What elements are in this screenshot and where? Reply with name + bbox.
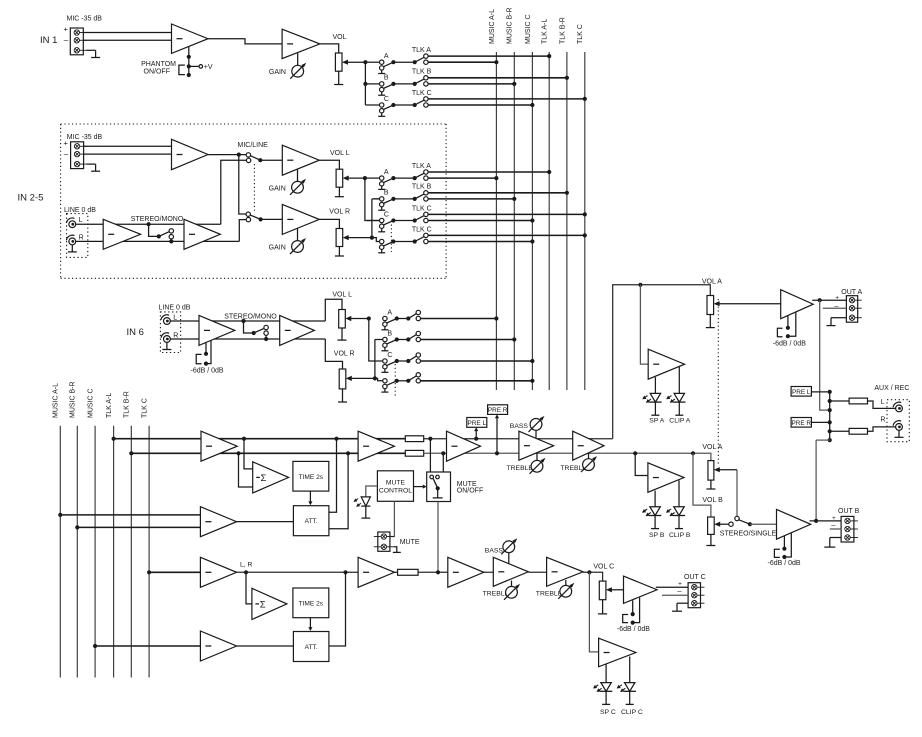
label IN6-A letter: [387, 309, 392, 316]
wire IN25-A feed: [365, 177, 380, 179]
bus label MUSIC C left: [88, 388, 95, 418]
wire IN25-C to music bus: [428, 220, 533, 222]
wire led B feed: [635, 453, 648, 475]
op-amp U8 IN6 line in: [199, 315, 235, 345]
wire IN25 B stub: [372, 198, 380, 200]
op-amp U16 treble A: [573, 431, 604, 460]
junction MIC/LINE R common: [259, 217, 263, 221]
label PHANTOM: [141, 61, 176, 68]
wire att6 C stem1: [632, 601, 634, 615]
label VOL L IN25: [330, 150, 350, 157]
svg-text:VOL A: VOL A: [702, 444, 722, 451]
potentiometer VOL L IN6: [339, 310, 346, 329]
svg-text:VOL: VOL: [333, 34, 347, 41]
junction IN1-C common: [391, 103, 395, 107]
wire led C stem1: [605, 664, 607, 683]
bus label TLK C left: [142, 398, 149, 418]
label IN25-C2 tlk: [412, 226, 432, 233]
wire mix C2 in: [95, 645, 200, 647]
box ATT C: [293, 632, 329, 662]
svg-text:MIC -35 dB: MIC -35 dB: [67, 16, 103, 23]
bus TLK A-L (left): [113, 426, 115, 678]
label IN1-C tlk: [412, 90, 432, 97]
junction STEREO/SINGLE common: [748, 522, 752, 526]
svg-text:SP A: SP A: [649, 417, 664, 424]
wiper VOL C: [606, 587, 624, 592]
junction att C join: [343, 570, 347, 574]
dashed box AUX REC: [887, 400, 909, 442]
junction mix2 Rbus: [75, 525, 79, 529]
svg-text:Σ: Σ: [261, 473, 267, 484]
op-amp U9 IN6 line buf: [280, 315, 315, 345]
ground VOL L IN6 gnd: [338, 328, 347, 340]
wire IN25 L gain stem: [297, 169, 299, 181]
terminal block OUT C: [688, 583, 704, 608]
wire led A feed: [640, 285, 648, 364]
ground mute term gnd: [393, 551, 401, 553]
junction IN25 volL node: [363, 176, 367, 180]
svg-text:C: C: [384, 211, 389, 218]
resistor R4 aux R: [849, 428, 867, 434]
potentiometer VOL B: [708, 517, 715, 534]
junction IN1-B node: [413, 82, 417, 86]
box MUTE CONTROL: [377, 471, 413, 502]
label IN1-B letter: [384, 75, 389, 82]
junction IN1 row B tap: [363, 82, 367, 86]
label IN1-A tlk: [412, 47, 431, 54]
svg-text:TLK B: TLK B: [412, 184, 432, 191]
bus label TLK C top: [577, 24, 584, 44]
junction IN6-A common: [395, 316, 399, 320]
wire sum feed C: [246, 572, 252, 604]
switch lever IN6-A lever2: [408, 313, 417, 318]
switch lever mute lever: [433, 479, 437, 489]
wire aux mix vert: [829, 392, 831, 440]
junction aux node 401: [828, 399, 832, 403]
wire IN25-A to tlk bus: [428, 171, 549, 173]
wire treble A2 stem: [588, 453, 590, 459]
bus TLK B-R (top): [566, 52, 568, 390]
potentiometer VOL A mid: [708, 461, 714, 481]
potentiometer knob TREBLE A: [530, 458, 546, 474]
wire att6 B stem1: [783, 536, 785, 549]
wire sum feed L: [244, 439, 253, 469]
switch contacts IN25-A tlk: [424, 170, 428, 181]
label -6dB/0dB C: [617, 626, 650, 633]
junction att6 B d1: [782, 547, 786, 551]
wire IN6-C to bus: [420, 360, 532, 362]
wire IN25 sm drop: [149, 224, 159, 236]
label plus IN1: [64, 25, 69, 34]
wire IN25-C2 to tlk bus: [428, 234, 585, 236]
label aux R: [880, 416, 885, 423]
svg-text:MUSIC A-L: MUSIC A-L: [53, 383, 60, 418]
switch contacts IN6 stereo/mono: [264, 325, 268, 335]
label IN1-A letter: [384, 53, 389, 60]
bus MUSIC A-L (top): [495, 52, 497, 390]
wire IN25 mic shield: [87, 163, 96, 165]
switch lever IN25-A lever: [383, 178, 393, 183]
junction IN25-A bus dot top: [547, 170, 551, 174]
svg-text:MUSIC B-R: MUSIC B-R: [70, 381, 77, 418]
label CLIP A: [669, 417, 691, 424]
svg-text:PRE R: PRE R: [791, 420, 811, 427]
wire IN6 sm stub: [265, 335, 267, 339]
svg-text:+: +: [64, 25, 69, 34]
junction mute pivot: [436, 486, 440, 490]
wire IN1 gain stem: [297, 53, 299, 65]
svg-text:STEREO/MONO: STEREO/MONO: [131, 216, 184, 223]
wire L sel to gain amp: [260, 159, 282, 161]
label OUT A: [841, 289, 862, 296]
LED CLIP B: [666, 507, 685, 529]
wire IN1-B link: [393, 83, 414, 85]
op-amp U24 buffer C: [358, 557, 394, 587]
label out A plus: [835, 295, 839, 302]
label VOL A mid: [702, 444, 722, 451]
op-amp U20 power B: [777, 509, 811, 539]
wire IN6 B stub: [375, 339, 383, 341]
junction att A join L: [334, 437, 338, 441]
label out C plus: [678, 580, 682, 587]
switch contacts IN25-A mute switch: [378, 176, 385, 189]
wire att C out: [329, 572, 346, 646]
op-amp U2 IN1 gain amp: [282, 29, 320, 58]
junction att A join R: [346, 451, 350, 455]
wire IN25-A link: [393, 177, 414, 179]
junction IN1-A common: [391, 60, 395, 64]
wire IN6-C2 link: [397, 380, 409, 382]
wire out A gnd stub: [831, 317, 846, 319]
label minus IN1: [64, 36, 69, 45]
summing amp U22 sum C: [252, 588, 287, 619]
op-amp U17 led drv A: [648, 349, 684, 379]
junction IN1 ph d3: [187, 73, 191, 77]
svg-text:LINE 0 dB: LINE 0 dB: [159, 304, 191, 311]
label TREBLE A2: [560, 465, 587, 472]
switch contacts IN6-B mute switch: [381, 337, 388, 351]
bus label MUSIC A-L left: [53, 383, 60, 418]
potentiometer knob BASS C: [501, 538, 517, 554]
switch lever IN1-A tlk lever: [415, 57, 425, 62]
svg-text:B: B: [387, 330, 392, 337]
switch lever IN1-B lever: [383, 84, 393, 89]
arrow time to att A: [308, 491, 312, 505]
junction IN6 att d1: [204, 352, 208, 356]
op-amp U21 mix C talk: [200, 557, 236, 587]
LED SP B: [642, 507, 661, 529]
svg-text:PRE L: PRE L: [468, 420, 487, 427]
wire IN25 mic out: [208, 154, 246, 156]
switch lever IN1-B tlk lever: [415, 79, 425, 84]
ground VOL R gnd: [335, 247, 344, 257]
ground IN6 line gnd: [162, 342, 171, 349]
junction IN1-A bus dot bottom: [494, 60, 498, 64]
ground VOL A gnd: [706, 315, 715, 328]
svg-text:-6dB / 0dB: -6dB / 0dB: [773, 341, 806, 348]
wire vol B feed: [693, 453, 711, 517]
wire IN1 interstage: [208, 39, 282, 44]
switch bracket att6 A: [777, 328, 782, 337]
wire IN6 L vert: [369, 319, 383, 362]
junction aux node 440.1: [828, 438, 832, 442]
ground VOL A mid gnd: [706, 480, 715, 489]
arrow mute ctl arrow: [414, 485, 427, 489]
wire out B gnd stub: [830, 537, 841, 539]
label BASS C: [485, 548, 504, 555]
wire att A out L: [329, 439, 337, 513]
wire IN6 R vert: [374, 340, 376, 379]
junction aux node 410.1: [828, 408, 832, 412]
junction mute tap C: [436, 570, 440, 574]
box PRE L A: [467, 418, 487, 428]
ground VOL B gnd: [706, 534, 715, 545]
svg-text:SP C: SP C: [600, 709, 616, 716]
wiper VOL A mid: [714, 467, 737, 472]
svg-text:TLK B-R: TLK B-R: [559, 17, 566, 44]
svg-text:PRE R: PRE R: [488, 407, 508, 414]
ground IN25 line gnd: [68, 245, 77, 252]
potentiometer knob TREBLE C: [504, 584, 520, 600]
label LINE 0 dB (IN25): [64, 207, 96, 214]
wire IN25 mic to R switch: [239, 155, 246, 214]
dashed box LINE IN6: [160, 312, 180, 353]
wire att A out R: [329, 453, 348, 529]
svg-text:TLK C: TLK C: [412, 205, 432, 212]
label OUT C: [684, 574, 706, 581]
label MUTE ON/OFF 1: [457, 481, 477, 488]
junction IN6 volL node: [367, 316, 371, 320]
switch contacts IN6-B: [416, 331, 420, 341]
potentiometer VOL A: [707, 296, 714, 315]
junction out A node: [818, 298, 822, 302]
label IN25-A tlk: [412, 163, 431, 170]
wire att6 B stem2: [784, 533, 791, 557]
svg-text:GAIN: GAIN: [269, 245, 286, 252]
junction IN25-A node: [413, 176, 417, 180]
svg-text:MIC -35 dB: MIC -35 dB: [67, 134, 103, 141]
junction IN25-B node: [413, 197, 417, 201]
wire IN1 +V link: [189, 65, 199, 67]
bus label TLK B-R left: [124, 391, 131, 418]
switch lever IN25-C lever: [383, 221, 393, 226]
op-amp U27 treble C: [547, 557, 584, 586]
svg-text:OUT B: OUT B: [838, 508, 860, 515]
junction mute tap L: [428, 437, 432, 441]
bus label MUSIC B-R top: [507, 7, 514, 44]
wire out B line: [810, 520, 842, 522]
switch contacts IN6-A: [416, 310, 420, 320]
bus TLK A-L (top): [548, 52, 550, 390]
switch contacts MIC/LINE L: [246, 153, 251, 163]
junction MIC/LINE L common: [258, 158, 262, 162]
switch lever IN25-B tlk lever: [415, 194, 425, 199]
svg-text:ATT.: ATT.: [305, 644, 318, 651]
wiper VOL L IN6: [345, 316, 369, 321]
junction IN25 sm pivot: [157, 234, 161, 238]
wire IN25 line R: [75, 240, 239, 242]
junction IN1-C node: [413, 103, 417, 107]
label MIC -35 dB (IN1): [67, 16, 103, 23]
box TIME 2s A: [293, 461, 329, 491]
RCA jack IN25 R: [66, 235, 75, 245]
op-amp U12 mix A music: [200, 507, 236, 537]
junction mix2 Lbus: [58, 513, 62, 517]
wire bass A stem: [535, 430, 537, 438]
wire R sel to gain amp: [261, 218, 283, 220]
LED SP C: [593, 683, 612, 705]
label GAIN IN1: [269, 69, 286, 76]
svg-text:A: A: [387, 309, 392, 316]
junction IN1-B bus dot bottom: [512, 82, 516, 86]
wire IN6 L up: [325, 299, 342, 321]
wire aux R to jack: [868, 427, 896, 431]
bus MUSIC C (top): [531, 52, 533, 390]
ground out C gnd: [672, 603, 682, 611]
switch contacts IN1-C tlk: [424, 97, 428, 108]
junction IN25-A bus dot bottom: [494, 176, 498, 180]
label +V: [204, 64, 213, 71]
junction IN1-A bus dot top: [547, 54, 551, 58]
junction vol C node: [587, 570, 591, 574]
potentiometer VOL R IN6: [339, 369, 346, 389]
op-amp U3 IN2-5 mic preamp: [172, 139, 209, 169]
label L, R: [240, 562, 253, 569]
svg-text:CLIP B: CLIP B: [669, 532, 691, 539]
junction IN6-B node: [406, 337, 410, 341]
wire IN6 line R: [170, 338, 325, 340]
junction IN1 ph d1: [187, 55, 191, 59]
wire IN1-C to music bus: [428, 104, 533, 106]
box PRE R aux: [791, 418, 811, 428]
op-amp U4 IN2-5 L gain: [282, 145, 319, 175]
switch contacts IN25 stereo/mono: [169, 229, 173, 239]
label MIC/LINE: [238, 142, 269, 149]
RCA jack IN25 L: [66, 218, 75, 228]
op-amp U23 mix C music: [200, 631, 236, 661]
wire IN1 mic hot: [83, 32, 171, 34]
wire IN25 volR feed: [319, 219, 339, 228]
junction IN6-C2 common: [395, 379, 399, 383]
op-amp U5 IN2-5 R gain: [282, 204, 319, 234]
label STEREO/MONO IN6: [224, 313, 277, 320]
label SP A: [649, 417, 664, 424]
label aux L: [881, 399, 885, 406]
LED mute opto: [354, 497, 371, 518]
label IN1-C letter: [384, 96, 389, 103]
box PRE L aux: [791, 387, 811, 397]
label OUT B: [838, 508, 860, 515]
wiper VOL B: [714, 522, 729, 527]
junction aux node 431.3: [828, 429, 832, 433]
label IN 1: [40, 35, 57, 46]
label ON/OFF IN1: [144, 69, 170, 76]
wire bass C stem: [508, 553, 510, 564]
junction mix C2 bus: [93, 644, 97, 648]
svg-text:A: A: [384, 53, 389, 60]
terminal block MIC IN1: [70, 28, 86, 55]
LED SP A: [642, 393, 661, 415]
wire led A stem2: [678, 367, 680, 394]
switch lever STEREO/SINGLE lever: [738, 520, 748, 524]
junction IN25-C common: [391, 218, 395, 222]
potentiometer VOL L IN2-5: [336, 169, 343, 187]
wire IN1-C link: [393, 104, 414, 106]
junction IN1-A node: [413, 60, 417, 64]
gang line IN2-5 box top: [61, 123, 447, 125]
label R jack IN6: [173, 332, 178, 339]
switch lever IN6-C lever2: [408, 356, 417, 361]
svg-text:MUTE: MUTE: [400, 539, 420, 546]
wire treble A stem: [536, 453, 538, 461]
switch contacts IN6-C2: [416, 373, 420, 383]
junction out B node: [814, 519, 818, 523]
junction mute tap R: [441, 451, 445, 455]
potentiometer knob GAIN IN1: [290, 63, 306, 79]
wire led C feed: [589, 572, 598, 652]
wire out C neg stub: [662, 594, 688, 596]
wire IN1 row bus vert: [364, 62, 366, 105]
wire IN6 R down: [325, 339, 342, 369]
junction IN6-C2 bus dot: [530, 379, 534, 383]
wiper VOL A: [714, 301, 781, 306]
label IN25-B tlk: [412, 184, 432, 191]
switch lever IN1-A lever: [383, 62, 393, 67]
wire IN25 L up to switch: [221, 160, 247, 224]
wire IN6 att stem2: [206, 340, 211, 364]
wire aux L to jack: [868, 401, 896, 408]
wire out C gnd stub: [677, 602, 688, 604]
junction IN6 sm pivot: [252, 331, 256, 335]
ground VOL C gnd: [598, 600, 607, 614]
junction IN6-C common: [395, 359, 399, 363]
junction IN25-C node: [413, 218, 417, 222]
wire led B stem2: [678, 480, 680, 507]
wire IN25 sm stub: [170, 239, 172, 242]
junction pre L tap: [474, 437, 478, 441]
svg-text:TLK B-R: TLK B-R: [124, 391, 131, 418]
wire IN25-B link: [393, 198, 414, 200]
svg-text:ON/OFF: ON/OFF: [457, 488, 483, 495]
svg-text:GAIN: GAIN: [269, 185, 286, 192]
arrow time to att C: [308, 618, 312, 631]
bus MUSIC C (left): [94, 426, 96, 678]
svg-text:TLK A-L: TLK A-L: [106, 393, 113, 418]
wire att6 C stem2: [633, 598, 640, 623]
junction IN6-A bus dot: [494, 316, 498, 320]
svg-text:B: B: [384, 190, 389, 197]
svg-text:VOL B: VOL B: [702, 497, 723, 504]
label TREBLE C2: [536, 590, 563, 597]
gang line VOL A gang: [717, 299, 719, 465]
switch lever IN6-C2 lever2: [408, 376, 417, 381]
wire IN25 R vert: [371, 199, 373, 238]
switch bracket PHANTOM: [179, 65, 185, 75]
junction IN6-A node: [406, 316, 410, 320]
RCA jack IN6 R: [161, 333, 170, 343]
junction IN25-C2 bus dot bottom: [530, 239, 534, 243]
junction mix1 Rbus: [129, 451, 133, 455]
junction IN6 volR node: [373, 376, 377, 380]
potentiometer knob TREBLE C2: [558, 583, 574, 599]
LED CLIP A: [666, 393, 685, 415]
label MUTE term: [400, 539, 420, 546]
junction IN1-C bus dot top: [583, 97, 587, 101]
wire main C 2: [418, 571, 493, 573]
junction IN1 ph d2: [187, 64, 191, 68]
wire out A neg stub: [823, 307, 847, 309]
label -6dB/0dB IN6: [191, 367, 224, 374]
